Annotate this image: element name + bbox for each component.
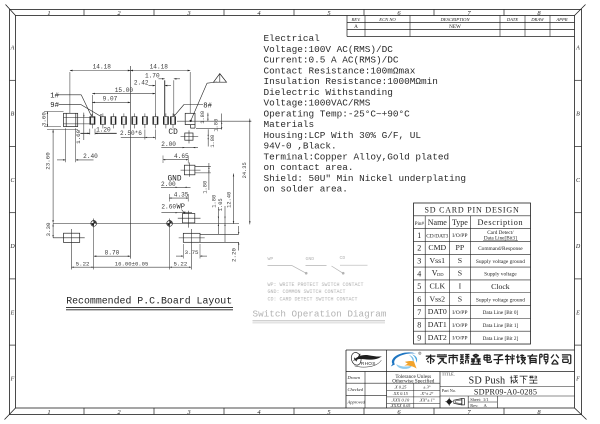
- svg-text:A: A: [354, 24, 358, 30]
- svg-text:7: 7: [417, 308, 421, 317]
- label 9# with leader: [50, 102, 101, 116]
- svg-text:Dielectric Withstanding: Dielectric Withstanding: [264, 87, 393, 98]
- svg-text:± 3°: ± 3°: [423, 384, 431, 389]
- company name Chinese characters: [426, 354, 571, 364]
- svg-text:SD CARD PIN DESIGN: SD CARD PIN DESIGN: [424, 205, 519, 214]
- triangle flag symbol: [214, 74, 227, 83]
- svg-text:I/O/PP: I/O/PP: [452, 233, 467, 239]
- pad WP with centerlines: [178, 211, 201, 228]
- tolerance values: [390, 384, 435, 408]
- svg-text:2: 2: [417, 244, 421, 253]
- svg-text:1: 1: [47, 10, 50, 17]
- dimension 2.60: [161, 204, 192, 214]
- pin table row 4 Vdd: [417, 269, 517, 279]
- title text SD Push: [469, 376, 506, 387]
- svg-text:1.80: 1.80: [203, 181, 209, 194]
- svg-text:8: 8: [417, 321, 421, 330]
- svg-text:1.80: 1.80: [212, 195, 218, 208]
- watermark title Switch Operation Diagram: [253, 309, 387, 323]
- revision row A NEW: [354, 24, 461, 30]
- svg-text:Pin#: Pin#: [415, 222, 425, 227]
- dimension 1.80 CD pad: [208, 129, 216, 147]
- svg-text:.XX°± 1°: .XX°± 1°: [419, 398, 435, 403]
- label WP with leader: [177, 203, 186, 213]
- svg-text:on contact area.: on contact area.: [264, 162, 354, 173]
- border row ticks left: [10, 80, 16, 345]
- tolerance header text: [392, 374, 435, 385]
- label CD: [168, 129, 178, 137]
- svg-text:PP: PP: [456, 243, 465, 252]
- dimension 1.80 c: [203, 163, 210, 194]
- mounting hole crosshair right: [167, 219, 173, 229]
- svg-text:Supply voltage: Supply voltage: [484, 272, 517, 278]
- pin table outer frame: [414, 203, 531, 344]
- extension lines pads 7 8 9 tops: [92, 80, 174, 116]
- title block outer lines: [346, 350, 575, 408]
- svg-text:Insulation Resistance:1000MΩmi: Insulation Resistance:1000MΩmin: [264, 76, 438, 87]
- svg-text:16.00±0.05: 16.00±0.05: [115, 261, 149, 268]
- border column ticks top: [84, 10, 504, 16]
- dimension 2.00 CD: [161, 141, 198, 148]
- svg-text:Switch Operation Diagram: Switch Operation Diagram: [253, 309, 387, 320]
- dimension 4.35: [169, 192, 188, 202]
- svg-text:Recommended P.C.Board Layout: Recommended P.C.Board Layout: [66, 296, 232, 307]
- projection symbol cone view: [454, 399, 465, 405]
- svg-text:APPR: APPR: [555, 17, 567, 22]
- svg-text:S: S: [458, 256, 462, 265]
- svg-text:I/O/PP: I/O/PP: [452, 323, 467, 329]
- pin table column lines: [425, 216, 470, 344]
- pin table row 7 DAT0: [417, 307, 518, 317]
- svg-text:1.05: 1.05: [218, 198, 224, 211]
- svg-text:Terminal:Copper Alloy,Gold pla: Terminal:Copper Alloy,Gold plated: [264, 151, 450, 162]
- svg-text:2.00: 2.00: [161, 141, 176, 148]
- svg-text:DAT2: DAT2: [428, 333, 447, 342]
- svg-text:A: A: [10, 46, 15, 52]
- svg-text:Electrical: Electrical: [264, 33, 321, 44]
- dimension 1.60: [75, 113, 84, 144]
- svg-text:Command/Response: Command/Response: [478, 246, 523, 252]
- svg-text:D: D: [575, 244, 581, 250]
- svg-text:E: E: [10, 310, 15, 316]
- svg-text:1.20: 1.20: [96, 127, 111, 134]
- logo RoHS: [350, 351, 382, 367]
- svg-text:REV.: REV.: [351, 17, 362, 22]
- svg-text:Checked: Checked: [348, 387, 364, 392]
- extension line left pad top: [69, 72, 71, 113]
- dimension 2.42: [134, 79, 171, 86]
- svg-text:1.80: 1.80: [200, 111, 206, 124]
- svg-text:Drawn: Drawn: [347, 375, 361, 380]
- border column ticks bottom: [84, 408, 504, 415]
- svg-text:.XXX 0.10: .XXX 0.10: [391, 398, 410, 403]
- svg-text:3.75: 3.75: [185, 249, 199, 256]
- dimension 1.80 d: [212, 195, 219, 235]
- title block logo cell separator: [386, 350, 388, 372]
- dimension 1.80 b: [214, 114, 223, 132]
- pin table row 6 Vss2: [417, 294, 525, 304]
- svg-text:2.40: 2.40: [83, 153, 98, 160]
- svg-text:14.18: 14.18: [93, 64, 112, 71]
- svg-text:Materials: Materials: [264, 119, 315, 130]
- label 1# with leader: [50, 92, 92, 116]
- svg-text:Type: Type: [452, 218, 468, 227]
- svg-text:CD/DAT3: CD/DAT3: [426, 233, 448, 239]
- svg-text:TITLE.: TITLE.: [442, 372, 455, 377]
- svg-text:8#: 8#: [203, 103, 212, 111]
- dimension 1.80 a: [200, 111, 209, 124]
- line under part number row: [440, 395, 575, 397]
- svg-text:CD: CARD DETECT SWITCH CONTACT: CD: CARD DETECT SWITCH CONTACT: [268, 297, 358, 303]
- label GND: [168, 176, 182, 184]
- extension line top right: [177, 120, 251, 122]
- svg-text:94V-0 ,Black.: 94V-0 ,Black.: [264, 141, 337, 152]
- pad bottom left with centerlines: [53, 229, 85, 270]
- svg-text:1#: 1#: [50, 92, 59, 100]
- pin table row 5 CLK: [417, 282, 510, 292]
- svg-text:F: F: [575, 377, 580, 383]
- dimension 23.60 overall height: [44, 130, 78, 223]
- svg-text:.X°± 2°: .X°± 2°: [420, 391, 433, 396]
- svg-text:Housing:LCP With 30% G/F, UL: Housing:LCP With 30% G/F, UL: [264, 130, 422, 141]
- watermark switch contact lines: [268, 264, 368, 266]
- svg-text:WP: WP: [177, 203, 185, 211]
- svg-text:R: R: [419, 352, 421, 355]
- border row ticks right: [575, 80, 582, 345]
- sheet and rev cell: [468, 396, 497, 408]
- svg-text:ECN NO: ECN NO: [378, 17, 396, 22]
- border row letters right: [575, 46, 581, 383]
- svg-text:Shield: 50U" Min Nickel underp: Shield: 50U" Min Nickel underplating: [264, 173, 467, 184]
- border column numbers bottom: [47, 409, 541, 416]
- svg-text:DATE: DATE: [506, 17, 519, 22]
- dimension 5.22 right: [170, 260, 192, 268]
- svg-text:CMD: CMD: [428, 243, 446, 252]
- svg-text:.X 0.25: .X 0.25: [394, 384, 407, 389]
- pin table row 2 CMD: [417, 243, 523, 253]
- svg-text:CLK: CLK: [429, 282, 445, 291]
- svg-text:14.18: 14.18: [150, 64, 169, 71]
- caption Recommended P.C.Board Layout: [66, 296, 233, 310]
- svg-text:Sheet:: Sheet:: [470, 397, 481, 402]
- mounting hole crosshair left: [91, 219, 97, 229]
- labels Drawn Checked Approved: [347, 375, 366, 404]
- pin table row 1 CD/DAT3: [417, 230, 518, 242]
- svg-text:1/1: 1/1: [483, 397, 489, 402]
- svg-text:6: 6: [417, 295, 421, 304]
- svg-text:3.30: 3.30: [45, 222, 52, 236]
- revision table headers: [351, 17, 568, 22]
- svg-text:Part No.: Part No.: [442, 388, 456, 393]
- revision table grid: [347, 16, 575, 37]
- extension line pad8 tail bottom: [196, 127, 222, 129]
- svg-text:Data Line [Bit 2]: Data Line [Bit 2]: [483, 336, 519, 342]
- watermark switch arms with contact dots: [292, 266, 345, 275]
- pad CD contact with centerlines: [181, 130, 199, 143]
- svg-text:I/O/PP: I/O/PP: [452, 336, 467, 342]
- label Part No: [442, 388, 456, 393]
- svg-text:Supply voltage ground: Supply voltage ground: [476, 297, 525, 303]
- svg-text:Data Line [Bit 1]: Data Line [Bit 1]: [483, 323, 519, 329]
- svg-text:SD Push: SD Push: [469, 376, 506, 387]
- svg-text:B: B: [576, 112, 580, 118]
- dimension 3.75: [176, 244, 207, 259]
- svg-text:DRAW: DRAW: [530, 17, 545, 22]
- logo company swoosh: [391, 352, 421, 369]
- svg-text:DAT1: DAT1: [428, 320, 447, 329]
- dimension 3.60 left pad height: [41, 112, 64, 127]
- extension line right pad top: [189, 72, 191, 113]
- svg-text:RHOS: RHOS: [361, 361, 376, 366]
- svg-text:SDPR09-A0-0285: SDPR09-A0-0285: [474, 387, 537, 396]
- title Chinese characters ban xia xing: [510, 376, 538, 384]
- svg-text:Description: Description: [477, 218, 523, 227]
- part number SDPR09-A0-0285: [474, 387, 537, 396]
- svg-text:8.70: 8.70: [105, 249, 120, 256]
- svg-text:5.22: 5.22: [173, 260, 187, 267]
- svg-text:Approved: Approved: [347, 399, 366, 404]
- svg-text:B: B: [11, 112, 15, 118]
- svg-text:2.42: 2.42: [134, 79, 149, 86]
- pad bottom middle with centerlines: [179, 229, 205, 270]
- lines from bottom pad to 2.20 dim: [200, 234, 239, 242]
- svg-text:9.07: 9.07: [103, 96, 118, 103]
- pin table row lines: [414, 216, 531, 331]
- svg-text:4.65: 4.65: [174, 153, 189, 160]
- dimension 1.20 pad width: [80, 127, 116, 135]
- border column numbers top: [47, 10, 541, 17]
- svg-text:Data Line[Bit3]: Data Line[Bit3]: [484, 236, 517, 242]
- svg-text:Contact Resistance:100mΩmax: Contact Resistance:100mΩmax: [264, 65, 416, 76]
- svg-text:1.80: 1.80: [210, 135, 216, 148]
- svg-text:Data Line [Bit 0]: Data Line [Bit 0]: [483, 310, 519, 316]
- svg-text:5: 5: [417, 282, 421, 291]
- pad row small pads 1-9: [90, 113, 176, 128]
- title line under SD Push row: [440, 386, 575, 388]
- dimension 14.18 right: [130, 64, 190, 72]
- projection symbol first angle diamond: [445, 398, 453, 406]
- svg-text:.XXXX 0.05: .XXXX 0.05: [390, 403, 411, 408]
- svg-text:D: D: [9, 244, 15, 250]
- centerline vertical: [129, 66, 131, 259]
- svg-text:Rev:: Rev:: [470, 403, 478, 408]
- dimension 8.70: [94, 249, 131, 257]
- pin table row 8 DAT1: [417, 320, 518, 330]
- svg-text:.XX 0.15: .XX 0.15: [393, 391, 409, 396]
- svg-text:GND: GND: [306, 256, 315, 262]
- svg-text:4.35: 4.35: [174, 192, 189, 199]
- dimension 3.30: [45, 222, 54, 238]
- label TITLE: [442, 372, 455, 377]
- watermark switch labels WP GND CD: [268, 255, 346, 262]
- svg-text:S: S: [458, 294, 462, 303]
- pin table title SD CARD PIN DESIGN: [424, 205, 519, 214]
- svg-text:Vss2: Vss2: [429, 294, 445, 303]
- dimension 2.40 lead spacing: [57, 128, 98, 162]
- pin table row 9 DAT2: [417, 333, 518, 343]
- svg-text:Clock: Clock: [491, 282, 510, 291]
- svg-text:DESCRIPTION: DESCRIPTION: [439, 17, 470, 22]
- tolerance box: [387, 372, 440, 409]
- pin table row 3 Vss1: [417, 256, 525, 266]
- dimension 14.18 left: [70, 64, 130, 72]
- svg-text:DD: DD: [437, 272, 444, 277]
- svg-text:3: 3: [417, 257, 421, 266]
- dimension 1.70: [145, 73, 180, 80]
- svg-text:on solder area.: on solder area.: [264, 184, 348, 195]
- dimension 9.07: [92, 96, 130, 104]
- svg-text:1: 1: [47, 409, 50, 416]
- svg-text:Current:0.5 A AC(RMS)/DC: Current:0.5 A AC(RMS)/DC: [264, 55, 399, 66]
- svg-text:DAT0: DAT0: [428, 307, 447, 316]
- svg-text:2.60: 2.60: [161, 204, 176, 211]
- dimension 16.00 plus minus 0.05: [94, 261, 170, 268]
- svg-text:Vss1: Vss1: [429, 256, 445, 265]
- svg-text:NEW: NEW: [449, 24, 461, 30]
- svg-text:I: I: [459, 282, 462, 291]
- svg-text:2.20: 2.20: [230, 248, 237, 262]
- leader from flag to pad 8 with dot: [190, 82, 218, 122]
- svg-text:S: S: [458, 269, 462, 278]
- svg-text:F: F: [10, 377, 15, 383]
- svg-text:WP: WP: [268, 256, 274, 262]
- watermark contact notes: [268, 282, 364, 303]
- dimension 1.05: [218, 198, 226, 242]
- svg-text:4: 4: [417, 269, 421, 278]
- dimension 15.00: [92, 87, 155, 95]
- horizontal centerline through holes: [53, 222, 239, 224]
- svg-text:CD: CD: [340, 255, 346, 261]
- svg-text:9#: 9#: [50, 102, 59, 110]
- svg-text:WP: WRITE PROTECT SWITCH CONTA: WP: WRITE PROTECT SWITCH CONTACT: [268, 282, 364, 288]
- dimension 2.00 GND: [161, 181, 191, 188]
- svg-text:1: 1: [417, 231, 421, 240]
- dimension 5.22 left: [72, 260, 94, 268]
- svg-text:5.22: 5.22: [76, 260, 90, 267]
- extension lines below holes: [94, 228, 170, 269]
- dimension 2.20: [230, 226, 239, 262]
- svg-text:24.35: 24.35: [242, 162, 248, 178]
- label 8# with leader to pad 9: [173, 103, 212, 117]
- svg-text:12.40: 12.40: [226, 192, 232, 208]
- svg-text:I/O/PP: I/O/PP: [452, 310, 467, 316]
- svg-text:A: A: [575, 46, 580, 52]
- pad right large pad 8#: [185, 113, 195, 128]
- svg-text:GND: COMMON SWITCH CONTACT: GND: COMMON SWITCH CONTACT: [268, 289, 346, 295]
- svg-text:Operating Temp:-25°C~+90°C: Operating Temp:-25°C~+90°C: [264, 108, 411, 119]
- svg-text:1.80: 1.80: [214, 119, 220, 132]
- border row letters left: [9, 46, 15, 383]
- svg-text:CD: CD: [168, 129, 178, 137]
- dimension 12.40: [226, 174, 234, 225]
- title block left grid: [346, 372, 387, 409]
- dimension 4.65: [163, 153, 189, 163]
- svg-text:Name: Name: [428, 218, 448, 227]
- svg-text:Supply voltage ground: Supply voltage ground: [476, 259, 525, 265]
- dimension 2.50*6 pitch: [120, 130, 155, 140]
- pad left large pad: [64, 113, 95, 126]
- svg-text:E: E: [575, 310, 580, 316]
- dimension 24.35: [242, 119, 251, 225]
- svg-text:23.60: 23.60: [44, 152, 51, 170]
- svg-text:2.50*6: 2.50*6: [120, 130, 142, 137]
- svg-text:1.60: 1.60: [75, 129, 82, 143]
- svg-text:3.60: 3.60: [41, 112, 48, 126]
- pin table headers: [415, 218, 524, 227]
- svg-text:Voltage:100V AC(RMS)/DC: Voltage:100V AC(RMS)/DC: [264, 44, 394, 55]
- electrical specification text: [264, 33, 467, 194]
- svg-text:9: 9: [417, 333, 421, 342]
- svg-text:Voltage:1000VAC/RMS: Voltage:1000VAC/RMS: [264, 98, 371, 109]
- pad GND with centerlines: [181, 163, 211, 177]
- svg-text:15.00: 15.00: [115, 87, 134, 94]
